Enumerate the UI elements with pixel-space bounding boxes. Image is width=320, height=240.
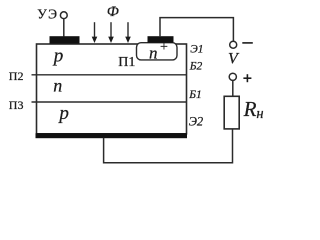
svg-text:Э2: Э2 bbox=[189, 114, 203, 128]
svg-text:n: n bbox=[53, 75, 62, 95]
svg-text:n: n bbox=[149, 44, 158, 63]
svg-text:П2: П2 bbox=[9, 69, 24, 83]
svg-text:П3: П3 bbox=[9, 98, 24, 112]
svg-text:p: p bbox=[52, 45, 64, 66]
svg-text:Ф: Ф bbox=[107, 4, 119, 20]
svg-text:Б1: Б1 bbox=[188, 89, 202, 101]
svg-text:Э1: Э1 bbox=[190, 44, 203, 56]
svg-text:УЭ: УЭ bbox=[37, 6, 58, 21]
svg-text:p: p bbox=[57, 103, 69, 124]
svg-text:П1: П1 bbox=[118, 55, 135, 70]
svg-text:+: + bbox=[160, 40, 168, 55]
svg-text:Б2: Б2 bbox=[189, 61, 203, 73]
